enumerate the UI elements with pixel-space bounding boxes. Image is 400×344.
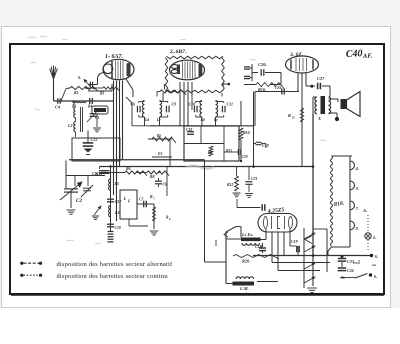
svg-text:R6: R6 [126,167,131,171]
svg-text:C1B: C1B [255,244,263,249]
svg-text:C21: C21 [251,177,257,181]
svg-text:E5: E5 [157,152,163,156]
svg-text:C19: C19 [291,239,298,244]
svg-text:A.: A. [362,208,367,213]
svg-text:c25.: c25. [275,85,282,90]
svg-text:Ly: Ly [156,118,161,122]
svg-text:L.M.: L.M. [239,286,249,291]
svg-text:C16: C16 [92,172,98,176]
svg-text:A.: A. [340,275,345,280]
svg-text:R3: R3 [100,92,104,96]
svg-text:L4: L4 [114,210,119,215]
svg-text:R10: R10 [243,130,250,135]
svg-text:C40: C40 [346,48,363,60]
svg-text:C2: C2 [76,198,82,204]
svg-text:R9: R9 [208,151,212,155]
svg-text:~: ~ [245,291,247,295]
svg-text:C26.: C26. [258,62,267,67]
svg-text:un.: un. [372,263,377,267]
svg-text:C9: C9 [172,102,177,107]
svg-text:L.: L. [372,235,377,240]
svg-text:R1: R1 [74,91,79,95]
svg-text:C17: C17 [115,200,122,204]
svg-text:AF.: AF. [362,52,373,60]
svg-text:R12: R12 [227,183,233,187]
svg-text:R20.: R20. [242,259,250,264]
svg-text:S.: S. [375,254,379,259]
svg-text:C18: C18 [186,128,192,132]
svg-text:Ld: Ld [200,118,205,122]
svg-text:7.: 7. [356,206,359,211]
svg-text:4.: 4. [355,166,359,171]
svg-text:15: 15 [292,116,296,120]
svg-text:C22: C22 [91,137,98,142]
svg-text:disposition des barrettes s: disposition des barrettes secteur contin… [57,273,169,280]
svg-text:L5: L5 [114,181,119,186]
svg-text:Ld: Ld [144,118,149,122]
svg-text:T.: T. [318,116,321,121]
svg-text:L: L [123,196,127,201]
svg-text:C6: C6 [163,183,167,187]
svg-text:R8: R8 [150,175,155,179]
svg-text:2..6B7.: 2..6B7. [169,49,186,55]
svg-text:L2: L2 [67,123,72,128]
svg-text:C11: C11 [227,102,233,107]
svg-text:C10: C10 [189,102,196,107]
svg-text:Lv Ex.: Lv Ex. [241,232,253,237]
svg-text:C4: C4 [55,105,61,110]
svg-text:disposition des barrettes s: disposition des barrettes secteur altern… [57,261,173,268]
svg-text:S.: S. [374,274,378,279]
svg-text:S.: S. [78,75,81,80]
svg-text:C24: C24 [347,268,354,273]
svg-text:R5: R5 [157,134,161,138]
svg-text:C27: C27 [317,76,325,81]
svg-text:C23: C23 [347,259,354,264]
svg-text:Ly: Ly [213,118,218,122]
svg-text:C10: C10 [115,226,121,230]
svg-text:C20: C20 [242,155,248,159]
svg-text:3.: 3. [355,186,359,191]
svg-text:2.: 2. [355,226,359,231]
